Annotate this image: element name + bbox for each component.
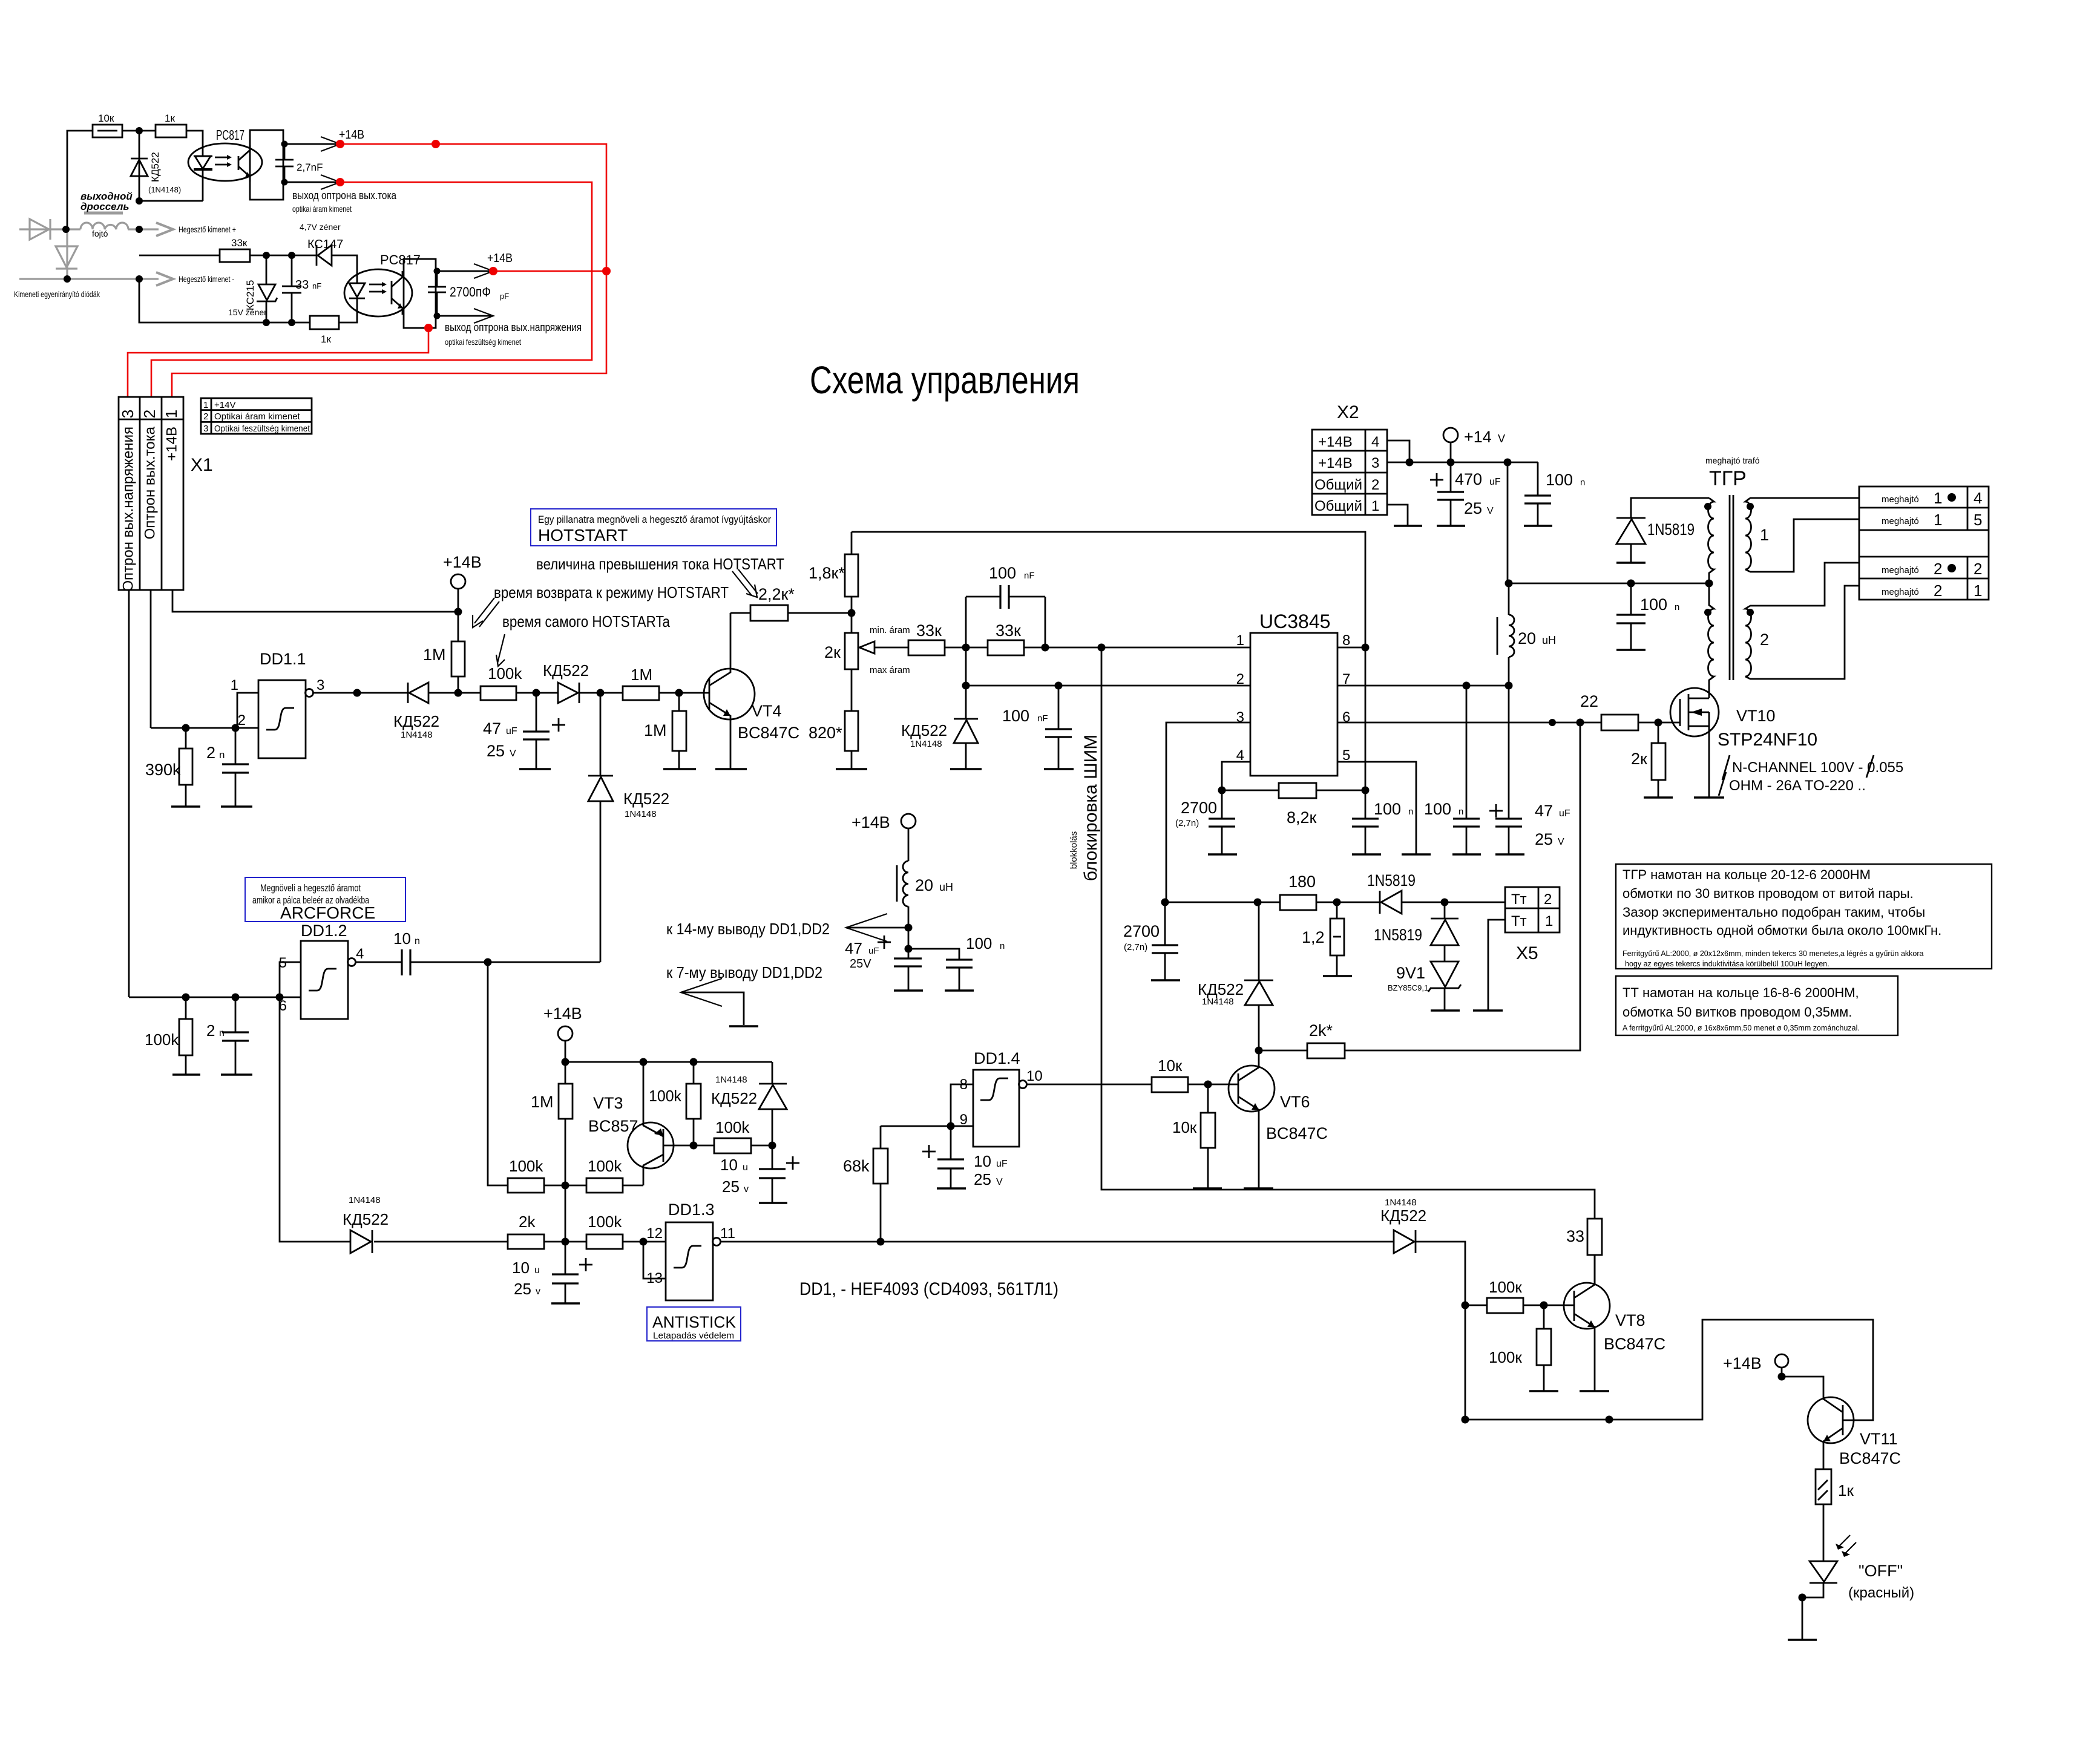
svg-text:n: n xyxy=(1459,807,1463,817)
wire to LED anode xyxy=(186,131,203,156)
capacitor 2700 (2,7n) pin3 xyxy=(1164,902,1166,945)
svg-text:10: 10 xyxy=(974,1152,991,1170)
diode 1N5819 (to X5) xyxy=(1379,891,1381,914)
svg-text:дроссель: дроссель xyxy=(80,201,130,212)
wire pin13 tied to pin12 xyxy=(643,1242,666,1279)
svg-text:VT3: VT3 xyxy=(593,1094,623,1112)
svg-text:2: 2 xyxy=(1544,891,1552,908)
wire X1 pin2 down xyxy=(150,590,152,728)
svg-text:u: u xyxy=(743,1162,748,1173)
svg-text:9V1: 9V1 xyxy=(1396,964,1425,982)
wire LED to ground xyxy=(1802,1583,1823,1640)
transistor VT4 BC847C xyxy=(704,669,755,719)
resistor 1,2 xyxy=(1336,902,1338,919)
svg-text:n: n xyxy=(415,936,420,946)
inductor 20uH (logic supply) xyxy=(903,861,908,906)
resistor 390k xyxy=(185,728,187,749)
transformer core xyxy=(1729,495,1731,680)
primary winding lower xyxy=(1708,583,1714,693)
wire pin5 to gnd xyxy=(1337,762,1416,854)
svg-text:индуктивность одной обмотки бы: индуктивность одной обмотки была около 1… xyxy=(1623,923,1941,938)
wire pin6 gate row xyxy=(1337,722,1601,724)
svg-text:3: 3 xyxy=(1371,455,1379,471)
wire VT8 row to VT11 base xyxy=(1465,1320,1873,1420)
svg-text:КД522: КД522 xyxy=(543,661,589,680)
svg-text:DD1.2: DD1.2 xyxy=(301,922,347,940)
svg-text:+14В: +14В xyxy=(851,813,890,831)
svg-text:2: 2 xyxy=(1934,560,1942,578)
svg-text:22: 22 xyxy=(1580,692,1598,710)
svg-text:uF: uF xyxy=(868,946,879,956)
capacitor 10u 25v (VT3) xyxy=(772,1145,773,1169)
svg-text:2700: 2700 xyxy=(1123,922,1160,940)
wire pin8 to Vref line xyxy=(1337,647,1365,649)
svg-text:v: v xyxy=(744,1184,749,1194)
svg-text:Egy pillanatra megnöveli a heg: Egy pillanatra megnöveli a hegesztő áram… xyxy=(538,514,771,525)
svg-text:Optikai áram kimenet: Optikai áram kimenet xyxy=(214,411,301,422)
wire X2 pin1 to gnd xyxy=(1387,505,1408,526)
svg-text:11: 11 xyxy=(720,1225,735,1242)
svg-text:Hegesztő kimenet -: Hegesztő kimenet - xyxy=(179,274,234,284)
resistor 1к xyxy=(156,125,186,137)
connector X1 xyxy=(119,397,183,590)
svg-text:1: 1 xyxy=(203,400,208,410)
svg-text:X2: X2 xyxy=(1337,402,1359,422)
svg-text:КД522: КД522 xyxy=(623,790,669,808)
svg-text:4: 4 xyxy=(356,946,364,962)
arrow Hegesztő kimenet - xyxy=(156,272,173,286)
wire X5 pin1 to gnd xyxy=(1488,920,1505,1011)
svg-text:1к: 1к xyxy=(165,113,175,124)
svg-text:15V zéner: 15V zéner xyxy=(228,307,267,317)
red net: +14V wire xyxy=(128,144,606,397)
svg-text:100k: 100k xyxy=(509,1157,543,1175)
svg-text:u: u xyxy=(534,1265,540,1276)
svg-text:1: 1 xyxy=(1545,913,1553,929)
svg-text:VT10: VT10 xyxy=(1736,707,1776,725)
resistor 1к (LED) xyxy=(1816,1469,1831,1504)
svg-text:1N5819: 1N5819 xyxy=(1647,520,1695,539)
svg-text:КД522: КД522 xyxy=(149,152,161,182)
svg-text:1: 1 xyxy=(1974,582,1982,600)
wire left vertical to 10k xyxy=(67,131,93,229)
svg-text:470: 470 xyxy=(1455,470,1482,488)
capacitor 100n (logic) xyxy=(908,949,959,960)
svg-text:(красный): (красный) xyxy=(1848,1585,1914,1601)
resistor 100к (VT8 base) xyxy=(1465,1305,1487,1306)
resistor 1M (series) xyxy=(623,686,659,700)
ANTISTICK note box xyxy=(647,1307,741,1341)
terminal +14 V xyxy=(1443,428,1458,442)
svg-text:КД522: КД522 xyxy=(901,721,947,739)
svg-text:4: 4 xyxy=(1371,434,1379,450)
svg-text:1N4148: 1N4148 xyxy=(349,1195,381,1205)
svg-text:2: 2 xyxy=(140,410,159,418)
svg-text:33к: 33к xyxy=(916,621,942,640)
resistor 180 xyxy=(1280,895,1316,910)
svg-text:uF: uF xyxy=(1489,477,1501,487)
svg-text:КД522: КД522 xyxy=(711,1089,757,1107)
svg-text:1N4148: 1N4148 xyxy=(401,730,433,740)
svg-text:время возврата к режиму HOTSTA: время возврата к режиму HOTSTART xyxy=(494,583,729,601)
svg-text:КД522: КД522 xyxy=(393,712,439,730)
resistor 2k xyxy=(508,1234,544,1249)
svg-text:25: 25 xyxy=(974,1170,991,1188)
svg-text:DD1.3: DD1.3 xyxy=(668,1201,715,1219)
resistor 100k xyxy=(481,686,516,700)
svg-text:X5: X5 xyxy=(1516,943,1538,963)
svg-text:1к: 1к xyxy=(321,333,331,345)
wire HOTSTART node row xyxy=(313,692,408,694)
svg-text:nF: nF xyxy=(312,281,321,290)
capacitor 2n xyxy=(235,728,237,764)
wire pin3 down to 180 row xyxy=(1166,722,1250,902)
svg-text:uF: uF xyxy=(996,1159,1008,1169)
diode КД522 (to 1M) xyxy=(558,683,578,703)
svg-text:2,7nF: 2,7nF xyxy=(297,162,323,173)
secondary winding 2 xyxy=(1745,606,1751,679)
wire mid rail to transformer xyxy=(1508,583,1709,585)
connector X5 (Тт) xyxy=(1505,887,1560,932)
wire Vref line to pin8 xyxy=(851,532,1365,790)
capacitor 2700пФ xyxy=(436,270,453,272)
inductor 20uH (Vcc filter) xyxy=(1508,583,1510,615)
svg-text:25: 25 xyxy=(722,1178,740,1196)
svg-text:33к: 33к xyxy=(996,621,1021,640)
wire DD1.4 out xyxy=(1026,1084,1152,1086)
capacitor 2700 (2,7n) xyxy=(1221,790,1223,819)
svg-text:n: n xyxy=(219,1028,225,1038)
svg-text:Optikai feszültség kimenet: Optikai feszültség kimenet xyxy=(214,424,310,434)
wire ARCFORCE to 100k row xyxy=(488,962,508,1185)
svg-text:+14V: +14V xyxy=(214,400,235,410)
svg-text:2к: 2к xyxy=(824,643,841,661)
arrow +14В out (opto1) xyxy=(321,137,340,151)
svg-text:2: 2 xyxy=(1974,560,1982,578)
svg-text:fojtó: fojtó xyxy=(92,229,108,238)
svg-text:VT6: VT6 xyxy=(1280,1093,1310,1111)
svg-text:2: 2 xyxy=(203,411,208,422)
capacitor 100n (transformer) xyxy=(1630,583,1632,615)
svg-text:pF: pF xyxy=(500,292,509,301)
svg-text:PC817: PC817 xyxy=(380,252,421,267)
svg-text:(2,7n): (2,7n) xyxy=(1175,818,1199,828)
svg-text:5: 5 xyxy=(1974,511,1982,529)
svg-text:4: 4 xyxy=(1974,489,1982,507)
svg-text:V: V xyxy=(1558,837,1564,847)
wire pin2 node xyxy=(965,647,967,686)
svg-text:3: 3 xyxy=(203,424,208,434)
diode КД522 (pin2 to gnd) xyxy=(965,686,967,719)
svg-text:V: V xyxy=(1498,433,1505,445)
ground xyxy=(221,805,252,807)
svg-text:+14В: +14В xyxy=(1318,434,1353,450)
svg-text:1M: 1M xyxy=(644,721,667,739)
diode КД522 (HOTSTART to ARCFORCE) xyxy=(600,693,602,776)
legend table X1 xyxy=(201,398,312,434)
svg-text:Общий: Общий xyxy=(1314,477,1362,493)
svg-text:+14В: +14В xyxy=(487,252,513,265)
resistor 2к (gate-gnd) xyxy=(1658,722,1659,743)
capacitor 47uF 25V (Vcc) xyxy=(1508,686,1510,819)
svg-text:25: 25 xyxy=(1535,830,1553,848)
svg-text:1N4148: 1N4148 xyxy=(715,1075,747,1085)
svg-text:BC847C: BC847C xyxy=(1604,1335,1665,1353)
svg-text:optikai feszültség kimenet: optikai feszültség kimenet xyxy=(445,337,521,347)
svg-text:33к: 33к xyxy=(231,237,248,249)
wire 33k row xyxy=(139,255,220,257)
svg-text:2: 2 xyxy=(206,1021,215,1040)
connector table meghajtó xyxy=(1859,487,1989,600)
svg-text:1: 1 xyxy=(231,677,238,693)
svg-text:10к: 10к xyxy=(1172,1118,1197,1136)
svg-text:33: 33 xyxy=(295,278,309,292)
svg-text:390k: 390k xyxy=(145,761,181,779)
capacitor 100n (Vcc) xyxy=(1466,686,1468,819)
diode КД522 1N4148 (to 100k) xyxy=(407,683,409,703)
svg-text:V: V xyxy=(510,749,516,759)
svg-text:hogy az egyes tekercs induktiv: hogy az egyes tekercs induktivitása körü… xyxy=(1625,960,1829,968)
svg-text:100: 100 xyxy=(1546,471,1573,489)
wire xyxy=(122,130,156,132)
wire pin5 tied to pin6 xyxy=(280,962,301,997)
svg-text:A ferritgyűrű AL:2000, ø 16x8x: A ferritgyűrű AL:2000, ø 16x8x6mm,50 men… xyxy=(1623,1024,1860,1032)
wire VT3 rail xyxy=(565,1061,772,1063)
capacitor 47uF 25V (logic) xyxy=(878,942,891,943)
svg-text:Оптрон вых.тока: Оптрон вых.тока xyxy=(142,426,158,539)
svg-text:100k: 100k xyxy=(649,1087,682,1105)
svg-text:10: 10 xyxy=(512,1259,530,1277)
svg-text:100k: 100k xyxy=(488,664,522,683)
svg-text:X1: X1 xyxy=(191,455,213,475)
svg-text:25: 25 xyxy=(487,742,505,760)
resistor 1к bottom xyxy=(310,316,339,329)
resistor 10к xyxy=(93,125,122,137)
wire pin6 row from X1 xyxy=(129,997,301,998)
svg-text:meghajtó: meghajtó xyxy=(1882,565,1919,575)
svg-text:КС215: КС215 xyxy=(244,280,256,310)
resistor 1M (VT3) xyxy=(565,1062,566,1084)
transistor VT8 BC847C xyxy=(1564,1283,1610,1329)
svg-text:1M: 1M xyxy=(531,1093,554,1111)
arrow к 7-му with ground xyxy=(681,978,722,1006)
svg-text:1: 1 xyxy=(1371,498,1379,514)
wire VT3 base row xyxy=(663,1145,714,1147)
diode output rectifier D-bottom (gray) xyxy=(56,246,77,267)
svg-text:47: 47 xyxy=(483,719,501,738)
svg-text:100: 100 xyxy=(1424,800,1451,818)
svg-text:Kimeneti egyenirányító diódák: Kimeneti egyenirányító diódák xyxy=(14,289,100,299)
zener КС215 15V xyxy=(266,255,267,284)
wire X2 pin3 rail xyxy=(1387,462,1538,464)
svg-text:2: 2 xyxy=(1371,477,1379,493)
ground xyxy=(171,805,200,807)
diode 1N5819 (clamp) xyxy=(1444,902,1446,919)
bar under выходной дроссель xyxy=(84,212,123,215)
svg-text:Зазор экспериментально подобра: Зазор экспериментально подобран таким, ч… xyxy=(1623,905,1925,920)
svg-text:n: n xyxy=(1675,602,1679,612)
svg-text:20: 20 xyxy=(915,876,933,894)
svg-text:100к: 100к xyxy=(1489,1278,1522,1296)
capacitor 47uF 25V xyxy=(536,693,537,732)
svg-text:10к: 10к xyxy=(1158,1057,1183,1075)
arrow to 100k xyxy=(496,634,505,666)
wire gray vertical between buses xyxy=(66,229,68,279)
capacitor 100n (pin4) xyxy=(1365,790,1367,819)
svg-text:+14В: +14В xyxy=(1318,455,1353,471)
resistor 100k (DD1.2 in) xyxy=(185,997,187,1019)
svg-text:25V: 25V xyxy=(850,957,871,971)
svg-text:ТТ намотан на кольце 16-8-6 20: ТТ намотан на кольце 16-8-6 2000НМ, xyxy=(1623,985,1859,1000)
wire COMP blocking line xyxy=(1101,647,1595,1219)
capacitor 2,7nF xyxy=(283,143,300,145)
wire X2 pin4 xyxy=(1387,441,1409,462)
svg-text:2k*: 2k* xyxy=(1309,1021,1333,1040)
svg-text:180: 180 xyxy=(1288,873,1316,891)
HOTSTART note box xyxy=(531,509,776,546)
svg-text:68k: 68k xyxy=(843,1157,870,1175)
svg-text:max áram: max áram xyxy=(870,665,910,675)
svg-text:3: 3 xyxy=(119,410,137,418)
svg-text:meghajtó: meghajtó xyxy=(1882,494,1919,505)
wire gray output bus - xyxy=(19,278,159,280)
svg-text:blokkolás: blokkolás xyxy=(1069,831,1079,870)
svg-text:V: V xyxy=(1487,506,1494,516)
svg-text:ТГР: ТГР xyxy=(1709,467,1747,490)
svg-text:ТГР намотан на кольце 20-12-6: ТГР намотан на кольце 20-12-6 2000НМ xyxy=(1623,867,1871,882)
capacitor 33 nF xyxy=(291,255,293,286)
wire gray output bus + xyxy=(19,228,80,230)
svg-text:100: 100 xyxy=(989,564,1016,582)
resistor 33к xyxy=(220,249,250,262)
svg-text:к 14-му выводу DD1,DD2: к 14-му выводу DD1,DD2 xyxy=(666,920,830,938)
resistor 100k (left of 1M node) xyxy=(508,1178,544,1193)
svg-text:4,7V zéner: 4,7V zéner xyxy=(300,222,341,232)
svg-text:+14В: +14В xyxy=(163,427,180,461)
svg-text:2k: 2k xyxy=(519,1213,536,1231)
diode КД522 (1N4148) top-left xyxy=(139,131,140,201)
svg-text:Hegesztő kimenet +: Hegesztő kimenet + xyxy=(179,224,236,234)
svg-text:к 7-му выводу DD1,DD2: к 7-му выводу DD1,DD2 xyxy=(666,963,822,981)
svg-text:100: 100 xyxy=(1640,595,1667,614)
resistor 100k (base to cap) xyxy=(714,1138,751,1153)
wiper arrow xyxy=(862,647,908,649)
svg-text:BC847C: BC847C xyxy=(1839,1449,1901,1467)
svg-text:2: 2 xyxy=(1934,582,1942,600)
svg-text:meghajtó trafó: meghajtó trafó xyxy=(1705,456,1760,465)
junction dots xyxy=(62,226,70,233)
svg-text:DD1.4: DD1.4 xyxy=(974,1049,1020,1067)
wire DD1.3 input row xyxy=(374,1241,508,1243)
resistor 100k (to VT3 collector) xyxy=(586,1178,623,1193)
resistor 10к (VT6 base) xyxy=(1152,1077,1188,1092)
svg-text:100k: 100k xyxy=(715,1118,750,1136)
MOSFET VT10 STP24NF10 xyxy=(1670,688,1719,736)
arrow output опт.напряжения xyxy=(474,309,493,323)
svg-text:BZY85C9,1: BZY85C9,1 xyxy=(1388,983,1428,992)
svg-text:n: n xyxy=(1408,807,1413,817)
resistor 68k xyxy=(880,1126,882,1148)
wire +14 to VT11 collector xyxy=(1782,1377,1823,1400)
svg-text:2700пФ: 2700пФ xyxy=(450,284,491,300)
svg-text:Letapadás védelem: Letapadás védelem xyxy=(653,1331,734,1341)
svg-text:Megnöveli a hegesztő áramot: Megnöveli a hegesztő áramot xyxy=(260,882,361,894)
wire DD1.3 output row xyxy=(720,1241,1394,1243)
arrow +14В out (opto2) xyxy=(474,264,493,278)
svg-text:BC847C: BC847C xyxy=(1266,1124,1328,1142)
note box ТТ намотан xyxy=(1616,976,1898,1035)
svg-text:2: 2 xyxy=(1760,631,1769,649)
svg-text:100: 100 xyxy=(966,934,992,952)
capacitor 100n (+14 rail) xyxy=(1537,462,1539,496)
svg-text:+14В: +14В xyxy=(543,1004,582,1023)
svg-text:КД522: КД522 xyxy=(1198,980,1244,998)
diode КД522 (VT3) xyxy=(772,1062,773,1084)
svg-text:min. áram: min. áram xyxy=(870,625,910,635)
secondary winding 1 xyxy=(1745,498,1751,572)
svg-text:25: 25 xyxy=(1464,499,1482,517)
resistor 10к (base-gnd) xyxy=(1207,1084,1209,1113)
svg-text:1N4148: 1N4148 xyxy=(1202,997,1234,1007)
arrow к 14-му xyxy=(846,914,887,942)
svg-text:n: n xyxy=(1580,477,1585,488)
svg-text:VT8: VT8 xyxy=(1615,1311,1646,1329)
svg-text:1: 1 xyxy=(1934,489,1942,507)
svg-text:100: 100 xyxy=(1374,800,1401,818)
svg-text:DD1, - HEF4093 (CD4093, 561Т: DD1, - HEF4093 (CD4093, 561ТЛ1) xyxy=(799,1279,1058,1299)
wire +14 down to mid rail xyxy=(1507,462,1509,583)
svg-text:+14В: +14В xyxy=(443,553,482,571)
svg-text:1N5819: 1N5819 xyxy=(1367,871,1416,889)
wire bottom rail xyxy=(139,279,310,323)
svg-text:1: 1 xyxy=(162,410,180,418)
svg-text:VT11: VT11 xyxy=(1860,1430,1898,1448)
svg-text:12: 12 xyxy=(646,1225,663,1242)
svg-text:10к: 10к xyxy=(98,113,114,124)
svg-text:meghajtó: meghajtó xyxy=(1882,587,1919,597)
svg-text:V: V xyxy=(996,1177,1003,1187)
svg-text:блокировка ШИМ: блокировка ШИМ xyxy=(1081,735,1101,881)
svg-text:100k: 100k xyxy=(145,1030,179,1049)
svg-text:1M: 1M xyxy=(631,666,652,684)
svg-text:"OFF": "OFF" xyxy=(1859,1562,1903,1580)
svg-text:время самого HOTSTARTa: время самого HOTSTARTa xyxy=(502,612,670,631)
svg-text:100k: 100k xyxy=(588,1157,622,1175)
svg-text:33: 33 xyxy=(1566,1227,1584,1245)
svg-text:выход оптрона вых.тока: выход оптрона вых.тока xyxy=(292,189,397,201)
svg-text:47: 47 xyxy=(845,939,862,957)
svg-text:nF: nF xyxy=(1024,571,1035,581)
svg-text:optikai áram kimenet: optikai áram kimenet xyxy=(292,204,352,214)
svg-text:Тт: Тт xyxy=(1511,913,1527,929)
arrow output опт.тока xyxy=(321,175,340,189)
capacitor 470uF 25V xyxy=(1450,462,1452,492)
svg-text:HOTSTART: HOTSTART xyxy=(538,526,628,545)
svg-text:8,2к: 8,2к xyxy=(1287,808,1317,827)
resistor 8,2к xyxy=(1222,790,1279,791)
resistor 1M (from +14B) xyxy=(458,612,459,641)
svg-text:3: 3 xyxy=(317,677,324,693)
resistor 1M (base to gnd) xyxy=(678,693,680,711)
wire opto1 bottom return xyxy=(139,200,203,202)
svg-text:1M: 1M xyxy=(423,646,446,664)
svg-text:Ferritgyűrű AL:2000, ø 20x12x: Ferritgyűrű AL:2000, ø 20x12x6mm, minden… xyxy=(1623,949,1924,958)
svg-text:(1N4148): (1N4148) xyxy=(148,185,181,194)
diode КД522 (VT6 collector) xyxy=(1258,902,1260,980)
svg-text:величина превышения тока HOTST: величина превышения тока HOTSTART xyxy=(536,555,784,573)
svg-text:10: 10 xyxy=(1026,1068,1043,1084)
svg-text:PC817: PC817 xyxy=(216,127,244,143)
